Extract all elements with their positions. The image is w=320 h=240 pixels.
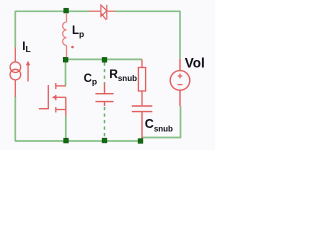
gate bar — [39, 85, 49, 109]
junction node B (Cp top / mid wire) — [102, 57, 107, 62]
svg-text:Vol: Vol — [185, 56, 205, 71]
svg-text:Cp: Cp — [84, 73, 98, 87]
channel segment top — [55, 83, 57, 89]
capacitor Cp — [95, 84, 113, 107]
junction node C (mosfet source / bottom wire) — [64, 138, 69, 143]
junction node D (Cp bottom / bottom wire) — [102, 138, 107, 143]
voltage source V1 — [170, 59, 190, 106]
resistor Rsnub — [138, 59, 145, 105]
wire middle horizontal — [66, 58, 143, 60]
svg-text:Rsnub: Rsnub — [109, 67, 137, 83]
inductor Lp — [63, 13, 67, 57]
svg-text:Csnub: Csnub — [145, 117, 173, 133]
voltage source plus sign — [178, 74, 183, 85]
svg-text:IL: IL — [22, 41, 30, 54]
wire mosfet source vertical — [65, 116, 67, 139]
wire bottom-right — [141, 106, 181, 140]
inductor Lp polarity dot — [71, 46, 74, 49]
wire top-right horizontal — [115, 11, 180, 59]
channel segment middle — [55, 95, 57, 101]
current source arrow — [26, 61, 30, 82]
wire bottom — [66, 140, 141, 142]
junction node A (inductor bottom / mid wire) — [63, 57, 68, 62]
transistor Q1 (MOSFET) — [39, 83, 66, 116]
source spine down — [65, 110, 67, 117]
svg-text:Lp: Lp — [72, 25, 84, 39]
transistor Q1 body arrowhead — [52, 95, 56, 99]
drain lead — [56, 85, 66, 87]
junction node top (inductor top) — [64, 8, 69, 13]
channel segment bottom — [55, 107, 57, 113]
wire mosfet drain vertical — [65, 62, 67, 86]
wire dashed Cp lower — [104, 107, 106, 138]
current source IL — [10, 48, 21, 97]
diode D1 — [89, 5, 115, 20]
source lead — [56, 97, 66, 109]
wire left vertical lower — [15, 97, 66, 142]
wire top-left horizontal — [15, 11, 89, 47]
body arrow line — [56, 96, 66, 98]
wire dashed Cp upper — [104, 63, 106, 85]
junction node E (Csnub bottom / bottom wire) — [138, 139, 143, 144]
capacitor Csnub — [132, 106, 153, 138]
